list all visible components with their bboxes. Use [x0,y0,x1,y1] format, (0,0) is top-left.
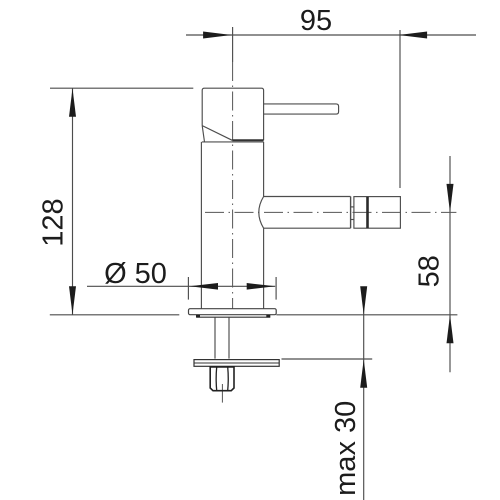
svg-text:max 30: max 30 [330,401,362,496]
svg-text:128: 128 [37,198,69,246]
svg-text:95: 95 [300,5,332,37]
svg-text:58: 58 [414,255,446,287]
svg-text:Ø 50: Ø 50 [104,258,167,290]
